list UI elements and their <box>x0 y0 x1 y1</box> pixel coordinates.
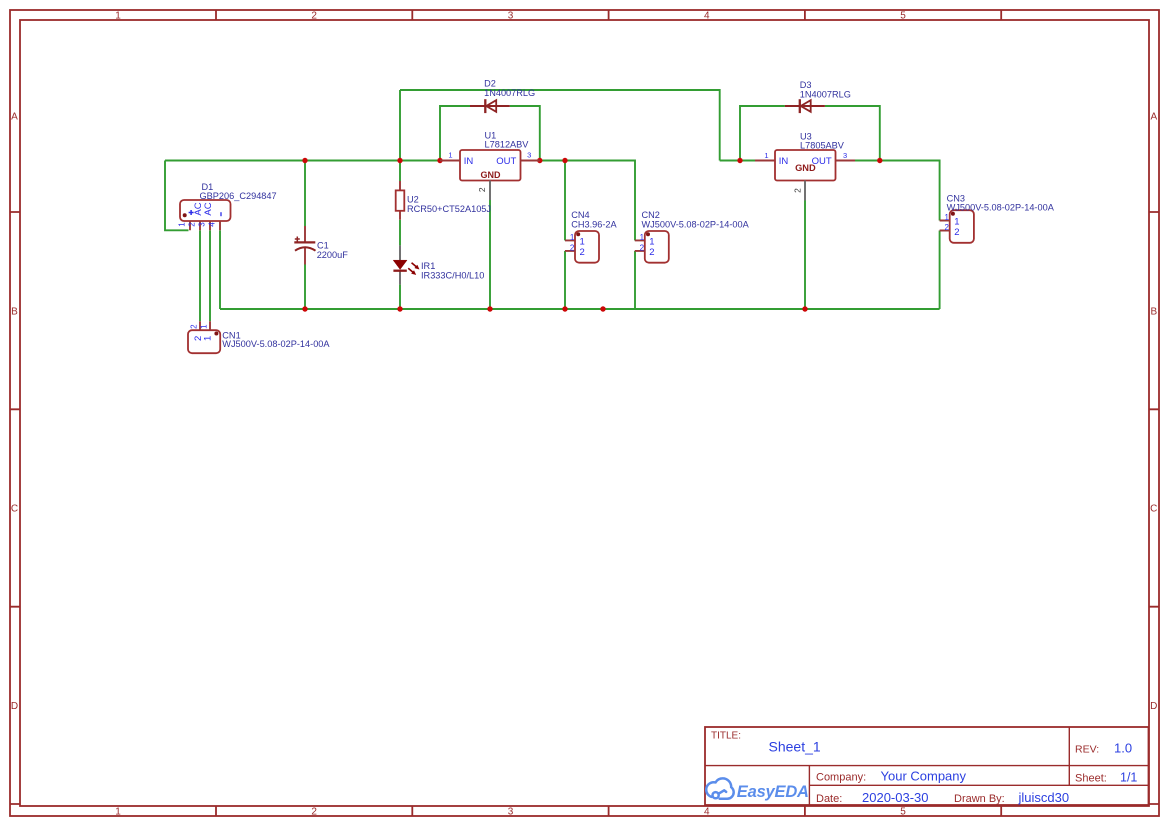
frame column label 4 bottom <box>704 806 710 817</box>
wire C1 top <box>304 161 306 227</box>
svg-text:2: 2 <box>311 10 317 21</box>
svg-text:2020-03-30: 2020-03-30 <box>862 790 929 805</box>
D1 value label <box>200 191 277 201</box>
svg-text:TITLE:: TITLE: <box>711 731 741 742</box>
svg-text:3: 3 <box>197 222 206 227</box>
svg-text:B: B <box>1150 306 1157 317</box>
CN2 value label <box>642 219 750 229</box>
wire U3 out to junction <box>855 160 880 162</box>
frame column label 2 top <box>311 10 317 21</box>
wire D1 pin3 to CN1 pin1 <box>209 230 211 321</box>
C1 refdes label <box>317 241 329 251</box>
connector CN4 <box>565 231 599 263</box>
svg-text:2: 2 <box>792 188 802 193</box>
frame row label B left <box>11 306 18 317</box>
connector CN1 <box>188 321 220 353</box>
wire riser x400 to top rail <box>399 90 401 161</box>
IR1 value label <box>421 271 484 281</box>
wire CN3 pin2 to bus <box>939 231 941 310</box>
svg-text:1: 1 <box>580 236 585 247</box>
svg-text:3: 3 <box>843 151 847 160</box>
junction bottom bus x565 <box>562 306 567 311</box>
svg-text:2: 2 <box>649 247 654 258</box>
svg-text:1: 1 <box>177 222 186 227</box>
svg-text:2: 2 <box>580 247 585 258</box>
wire D1 pin2 to CN1 pin2 <box>199 230 201 321</box>
EasyEDA logo <box>706 778 809 800</box>
svg-text:L7805ABV: L7805ABV <box>800 141 845 151</box>
wire D1 pin4 down <box>219 230 221 309</box>
svg-text:1N4007RLG: 1N4007RLG <box>800 90 851 100</box>
svg-text:jluiscd30: jluiscd30 <box>1018 790 1070 805</box>
svg-text:2: 2 <box>187 222 196 227</box>
svg-text:1: 1 <box>944 213 949 222</box>
svg-text:D: D <box>11 701 18 712</box>
svg-text:5: 5 <box>900 10 906 21</box>
wire CN4 pin2 to bus <box>564 251 566 309</box>
junction top bus x440 <box>437 158 442 163</box>
svg-text:1: 1 <box>649 236 654 247</box>
frame column label 1 bottom <box>115 806 121 817</box>
wire junction to CN3 pin1 <box>880 161 940 221</box>
wire D2 right loop <box>510 106 540 161</box>
frame column label 5 bottom <box>900 806 906 817</box>
CN4 value label <box>571 219 617 229</box>
D3 value label <box>800 90 851 100</box>
svg-text:2: 2 <box>954 227 959 238</box>
D3 refdes label <box>800 80 812 90</box>
svg-text:WJ500V-5.08-02P-14-00A: WJ500V-5.08-02P-14-00A <box>222 339 330 349</box>
wire left vertical to D1 pin1 <box>165 161 189 231</box>
D2 value label <box>484 88 535 98</box>
CN3 refdes label <box>947 193 965 203</box>
U2 value label <box>407 204 491 214</box>
svg-text:REV:: REV: <box>1075 744 1099 756</box>
capacitor C1 <box>294 226 315 265</box>
svg-text:U2: U2 <box>407 195 419 205</box>
svg-text:1/1: 1/1 <box>1120 770 1137 784</box>
CN1 value label <box>222 339 330 349</box>
frame column label 3 bottom <box>508 806 514 817</box>
wire CN4 down to pin1 <box>564 161 566 241</box>
CN2 refdes label <box>642 210 660 220</box>
diode D3 <box>785 99 825 113</box>
svg-text:2: 2 <box>570 243 575 252</box>
svg-text:A: A <box>1150 112 1157 123</box>
svg-text:1: 1 <box>764 151 768 160</box>
wire D3 right loop <box>825 106 880 161</box>
svg-text:1: 1 <box>640 233 645 242</box>
junction top bus x565 <box>562 158 567 163</box>
svg-text:WJ500V-5.08-02P-14-00A: WJ500V-5.08-02P-14-00A <box>642 219 750 229</box>
junction top bus x305 <box>302 158 307 163</box>
svg-text:Drawn By:: Drawn By: <box>954 793 1005 805</box>
CN1 refdes label <box>222 330 240 340</box>
svg-text:RCR50+CT52A105J: RCR50+CT52A105J <box>407 204 491 214</box>
infrared LED IR1 <box>393 245 420 284</box>
svg-text:1N4007RLG: 1N4007RLG <box>484 88 535 98</box>
C1 value label <box>317 250 349 260</box>
connector CN3 <box>940 210 974 243</box>
svg-text:D2: D2 <box>484 79 496 89</box>
svg-text:WJ500V-5.08-02P-14-00A: WJ500V-5.08-02P-14-00A <box>947 203 1055 213</box>
svg-text:4: 4 <box>704 806 710 817</box>
svg-text:IN: IN <box>464 156 474 167</box>
svg-text:EasyEDA: EasyEDA <box>737 783 809 801</box>
svg-text:1: 1 <box>115 806 121 817</box>
svg-text:OUT: OUT <box>496 156 516 167</box>
svg-text:2: 2 <box>477 187 487 192</box>
svg-text:C: C <box>1150 504 1157 515</box>
svg-text:Date:: Date: <box>816 793 842 805</box>
wire U1 gnd to bus <box>489 200 491 309</box>
wire CN2 pin2 to bus <box>634 251 636 309</box>
connector CN2 <box>635 231 669 263</box>
wire D2 left loop <box>440 106 470 161</box>
svg-text:1: 1 <box>448 151 452 160</box>
svg-text:1: 1 <box>115 10 121 21</box>
junction bottom bus x490 <box>487 306 492 311</box>
wire U2 top <box>399 161 401 182</box>
frame column label 2 bottom <box>311 806 317 817</box>
svg-text:C: C <box>11 504 18 515</box>
svg-text:IN: IN <box>779 156 789 167</box>
svg-text:D: D <box>1150 701 1157 712</box>
svg-text:Company:: Company: <box>816 771 866 783</box>
wire D3 left loop <box>740 106 785 161</box>
U3 refdes label <box>800 131 812 141</box>
junction bottom bus x305 <box>302 306 307 311</box>
wire bottom bus <box>220 308 940 310</box>
svg-text:3: 3 <box>527 151 531 160</box>
svg-text:4: 4 <box>207 222 216 227</box>
wire IR1 bottom to bus <box>399 285 401 309</box>
diode D2 <box>470 99 510 113</box>
svg-text:IR1: IR1 <box>421 261 435 271</box>
U2 refdes label <box>407 195 419 205</box>
svg-text:GBP206_C294847: GBP206_C294847 <box>200 191 277 201</box>
junction bottom bus x400 <box>397 306 402 311</box>
svg-text:1: 1 <box>199 324 208 329</box>
svg-text:2: 2 <box>944 223 949 232</box>
frame column label 1 top <box>115 10 121 21</box>
D1 refdes label <box>202 182 214 192</box>
frame column label 3 top <box>508 10 514 21</box>
svg-text:3: 3 <box>508 10 514 21</box>
voltage regulator U1 <box>440 150 540 200</box>
voltage regulator U3 <box>755 150 855 201</box>
svg-text:2: 2 <box>311 806 317 817</box>
svg-text:A: A <box>11 112 18 123</box>
svg-text:CH3.96-2A: CH3.96-2A <box>571 219 617 229</box>
IR1 refdes label <box>421 261 435 271</box>
D2 refdes label <box>484 79 496 89</box>
svg-text:5: 5 <box>900 806 906 817</box>
frame row label B right <box>1150 306 1157 317</box>
frame column label 5 top <box>900 10 906 21</box>
title block <box>705 727 1149 805</box>
svg-text:AC: AC <box>203 202 214 215</box>
frame row label A right <box>1150 112 1157 123</box>
wire U2 to IR1 <box>399 220 401 246</box>
U1 refdes label <box>485 130 497 140</box>
frame row label D left <box>11 701 18 712</box>
frame row label C right <box>1150 504 1157 515</box>
CN4 refdes label <box>571 210 589 220</box>
frame column label 4 top <box>704 10 710 21</box>
wire rail to U3 junction <box>720 160 755 162</box>
svg-text:GND: GND <box>481 170 502 180</box>
svg-text:4: 4 <box>704 10 710 21</box>
U1 value label <box>485 139 530 149</box>
wire top rail y90 <box>400 90 720 161</box>
svg-text:2: 2 <box>640 243 645 252</box>
svg-text:Sheet_1: Sheet_1 <box>769 739 821 755</box>
junction top bus x540 <box>537 158 542 163</box>
svg-text:3: 3 <box>508 806 514 817</box>
svg-text:L7812ABV: L7812ABV <box>485 139 530 149</box>
svg-text:2200uF: 2200uF <box>317 250 349 260</box>
wire U1 out segment <box>539 160 565 162</box>
junction bottom bus x603 <box>600 306 605 311</box>
U3 value label <box>800 141 845 151</box>
svg-text:1.0: 1.0 <box>1114 741 1132 756</box>
wire C1 bottom <box>304 265 306 310</box>
wire CN4 to CN2 corner <box>565 161 635 241</box>
frame row label C left <box>11 504 18 515</box>
svg-text:B: B <box>11 306 18 317</box>
svg-text:2: 2 <box>190 324 199 329</box>
svg-text:GND: GND <box>795 163 816 173</box>
junction bottom bus x805 <box>802 306 807 311</box>
svg-text:Sheet:: Sheet: <box>1075 772 1107 784</box>
junction U3 in x740 <box>737 158 742 163</box>
wire U3 gnd to bus <box>804 201 806 310</box>
svg-text:1: 1 <box>954 216 959 227</box>
svg-text:1: 1 <box>570 233 575 242</box>
frame row label A left <box>11 112 18 123</box>
svg-text:1: 1 <box>202 336 213 341</box>
junction top bus x400 <box>397 158 402 163</box>
CN3 value label <box>947 203 1055 213</box>
svg-text:D3: D3 <box>800 80 812 90</box>
bridge rectifier D1 <box>177 200 230 230</box>
resistor U2 <box>396 181 405 220</box>
frame row label D right <box>1150 701 1157 712</box>
svg-text:IR333C/H0/L10: IR333C/H0/L10 <box>421 271 484 281</box>
junction U3 out x880 <box>877 158 882 163</box>
wire top bus <box>165 160 441 162</box>
svg-text:Your Company: Your Company <box>881 768 967 783</box>
